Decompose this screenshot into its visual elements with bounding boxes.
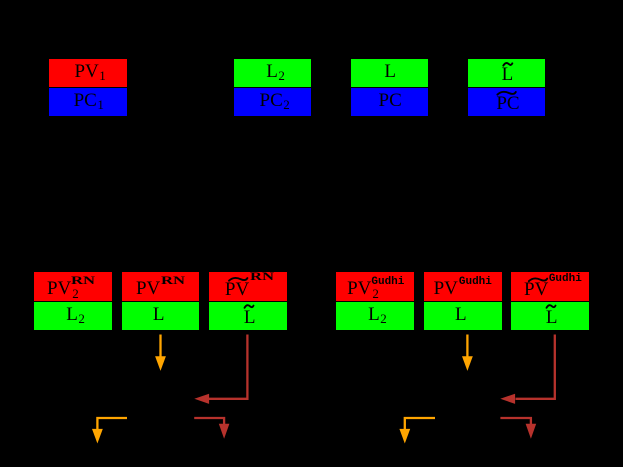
box PVGudhi/L bottom cell	[424, 302, 502, 330]
left lower red arrowhead	[219, 424, 230, 439]
right lower red arrowhead	[526, 424, 537, 439]
box PVtildeGudhi/Ltilde top cell	[511, 272, 589, 300]
box PVRN/L bottom cell	[122, 302, 200, 330]
box PV1/PC1 top cell	[49, 59, 127, 87]
box PVtildeGudhi/Ltilde bottom cell	[511, 302, 589, 330]
right lower red elbow	[500, 418, 531, 426]
box PV2RN/L2 bottom cell	[34, 302, 112, 330]
right orange arrowhead	[462, 356, 473, 371]
wide tilde over PV box10	[529, 278, 547, 281]
left red elbow from box	[209, 335, 247, 399]
left red left-arrowhead	[194, 394, 209, 404]
left lower orange arrowhead	[92, 429, 103, 444]
right red left-arrowhead	[500, 394, 515, 404]
tilde over L box10 bottom	[547, 305, 556, 308]
tilde over L box7 bottom	[245, 305, 254, 308]
box PV2Gudhi/L2 top cell	[336, 272, 414, 300]
wide tilde over PC box4	[497, 92, 515, 95]
box L/PC bottom cell	[351, 88, 429, 116]
box L2/PC2 bottom cell	[234, 88, 312, 116]
box L/PC top cell	[351, 59, 429, 87]
left orange down arrow shaft	[159, 335, 161, 359]
box L2/PC2 top cell	[234, 59, 312, 87]
box PVGudhi/L top cell	[424, 272, 502, 300]
right lower orange arrowhead	[399, 429, 410, 444]
right orange down arrow shaft	[466, 335, 468, 359]
left orange arrowhead	[155, 356, 166, 371]
box PV1/PC1 bottom cell	[49, 88, 127, 116]
box PV2Gudhi/L2 bottom cell	[336, 302, 414, 330]
left lower red elbow	[194, 418, 224, 426]
box PVtildeRN/Ltilde top cell	[209, 272, 287, 300]
right lower orange elbow	[405, 418, 435, 431]
left lower orange elbow	[97, 418, 127, 431]
box PVRN/L top cell	[122, 272, 200, 300]
box Ltilde/PCtilde bottom cell	[468, 88, 546, 116]
box PVtildeRN/Ltilde bottom cell	[209, 302, 287, 330]
right red elbow from box	[516, 335, 555, 399]
box PV2RN/L2 top cell	[34, 272, 112, 300]
wide tilde over PV box7	[229, 278, 247, 281]
box Ltilde/PCtilde top cell	[468, 59, 546, 87]
tilde over L box4	[503, 63, 512, 66]
